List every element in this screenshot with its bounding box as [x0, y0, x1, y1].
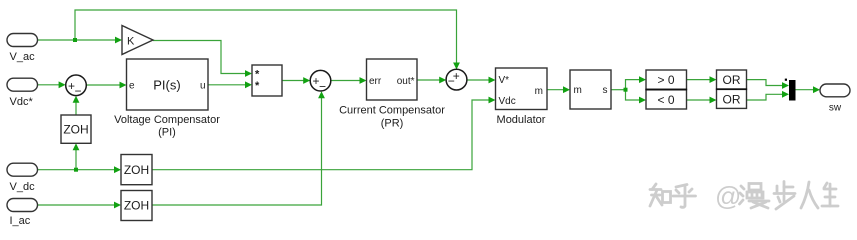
arrowhead into compare GT [639, 76, 646, 83]
svg-text:K: K [127, 36, 135, 48]
block m to s converter [570, 70, 611, 109]
arrowhead into OR1 [710, 76, 717, 83]
sum S2 [310, 70, 331, 93]
wire sum S2 to PR err [331, 80, 364, 82]
svg-text:−: − [75, 84, 82, 98]
arrowhead into Modulator Vdc [489, 97, 496, 104]
arrowhead into product input 2 [245, 81, 252, 88]
svg-text:−: − [448, 74, 455, 88]
svg-text:Vdc*: Vdc* [10, 96, 34, 108]
wire feedforward V_ac to sum S3 top [75, 10, 457, 67]
wire converter s to junction [611, 89, 626, 91]
sum S1 [66, 75, 87, 98]
wire V_dc to ZOH2 [38, 169, 119, 171]
wire PI u to product input 2 [208, 84, 249, 86]
block PI(s) Voltage Compensator [114, 59, 220, 139]
divider between OR blocks [716, 88, 747, 90]
svg-text:(PI): (PI) [158, 127, 176, 139]
svg-text:ZOH: ZOH [63, 123, 88, 137]
wire compare GT to OR1 [687, 79, 714, 81]
wire Vdc* to sum S1 [38, 84, 64, 86]
logic block OR1 [717, 70, 747, 89]
svg-text:−: − [319, 79, 326, 93]
svg-text:I_ac: I_ac [10, 215, 31, 227]
svg-text:Modulator: Modulator [497, 114, 546, 126]
wire gain K to product input 1 [153, 41, 249, 74]
arrowhead into sum S3 left [439, 77, 446, 84]
wire V_dc branch up to ZOH1 [75, 146, 77, 170]
logic block OR2 [717, 89, 747, 108]
arrowhead into sw port [813, 86, 820, 93]
wire OR1 to mux input 1 [747, 80, 786, 86]
wire sum S1 to PI e [87, 84, 124, 86]
gain K [122, 26, 153, 55]
wire ZOH1 to sum S1 bottom [75, 99, 77, 116]
arrowhead into compare LT [639, 97, 646, 104]
product block [252, 65, 282, 96]
svg-text:out*: out* [397, 76, 415, 87]
arrowhead into gain K [115, 37, 122, 44]
svg-text:e: e [129, 81, 135, 92]
arrowhead into Modulator V* [489, 77, 496, 84]
input port Vdc* [7, 78, 38, 108]
arrowhead into PI e [120, 82, 127, 89]
wire V_ac to gain K [38, 39, 119, 41]
svg-text:m: m [574, 85, 582, 96]
block Current Compensator (PR) [339, 59, 445, 130]
output port sw [820, 84, 850, 114]
block ZOH1 [61, 115, 91, 143]
wire Modulator m to converter [547, 89, 567, 91]
svg-text:> 0: > 0 [657, 73, 674, 87]
arrowhead into mux input 1 [782, 82, 789, 89]
svg-text:m: m [535, 86, 543, 97]
junction on V_ac wire [73, 38, 77, 42]
svg-text:err: err [369, 76, 382, 87]
arrowhead into sum S1 bottom [73, 96, 80, 103]
sum S3 [446, 69, 467, 90]
block ZOH3 [121, 191, 152, 221]
arrowhead into sum S2 bottom [318, 91, 325, 98]
wire junction to compare LT [626, 90, 644, 100]
compare block LT zero [646, 90, 687, 110]
divider between compare blocks [646, 89, 688, 91]
svg-text:V*: V* [499, 75, 510, 86]
wire compare LT to OR2 [687, 99, 714, 101]
wire PR out* to sum S3 [417, 79, 443, 81]
arrowhead into mux input 2 [782, 91, 789, 98]
arrowhead into ZOH1 bottom [73, 143, 80, 150]
svg-text:*: * [255, 80, 260, 92]
input port I_ac [7, 199, 38, 228]
wire mux to sw [796, 89, 818, 91]
svg-text:s: s [603, 85, 608, 96]
svg-text:sw: sw [829, 103, 842, 114]
wire product to sum S2 [282, 80, 307, 82]
mux [785, 79, 796, 101]
svg-text:V_ac: V_ac [10, 51, 36, 63]
svg-text:u: u [200, 81, 206, 92]
watermark zhihu [650, 184, 696, 207]
arrowhead into converter m [563, 86, 570, 93]
wire junction to compare GT [626, 80, 644, 90]
input port V_ac [7, 34, 38, 64]
svg-text:V_dc: V_dc [10, 181, 36, 193]
arrowhead into OR2 [710, 97, 717, 104]
svg-text:PI(s): PI(s) [153, 78, 180, 93]
svg-text:OR: OR [723, 73, 741, 87]
arrowhead into product input 1 [245, 70, 252, 77]
arrowhead into sum S2 [303, 77, 310, 84]
arrowhead into ZOH2 [114, 166, 121, 173]
arrowhead into sum S3 top [453, 63, 460, 70]
svg-text:Voltage Compensator: Voltage Compensator [114, 114, 220, 126]
svg-text:< 0: < 0 [657, 93, 674, 107]
wire ZOH3 to sum S2 bottom [152, 94, 322, 206]
svg-text:OR: OR [723, 93, 741, 107]
block Modulator [496, 68, 548, 126]
wire I_ac to ZOH3 [38, 204, 119, 206]
svg-text:ZOH: ZOH [124, 163, 149, 177]
compare block GT zero [646, 70, 687, 90]
svg-text:(PR): (PR) [381, 118, 404, 130]
wire sum S3 to Modulator V* [467, 79, 493, 81]
junction on s wire [624, 88, 628, 92]
svg-text:ZOH: ZOH [124, 199, 149, 213]
svg-text:@: @ [715, 181, 741, 211]
input port V_dc [7, 163, 38, 193]
svg-text:Current Compensator: Current Compensator [339, 105, 445, 117]
svg-text:Vdc: Vdc [499, 96, 516, 107]
junction on V_dc wire [74, 168, 78, 172]
arrowhead into PR err [360, 77, 367, 84]
arrowhead into sum S1 [59, 81, 66, 88]
svg-text:*: * [255, 69, 260, 81]
arrowhead into ZOH3 [114, 202, 121, 209]
wire OR2 to mux input 2 [747, 94, 786, 100]
wire ZOH2 to Modulator Vdc [152, 100, 493, 170]
block ZOH2 [121, 155, 152, 185]
